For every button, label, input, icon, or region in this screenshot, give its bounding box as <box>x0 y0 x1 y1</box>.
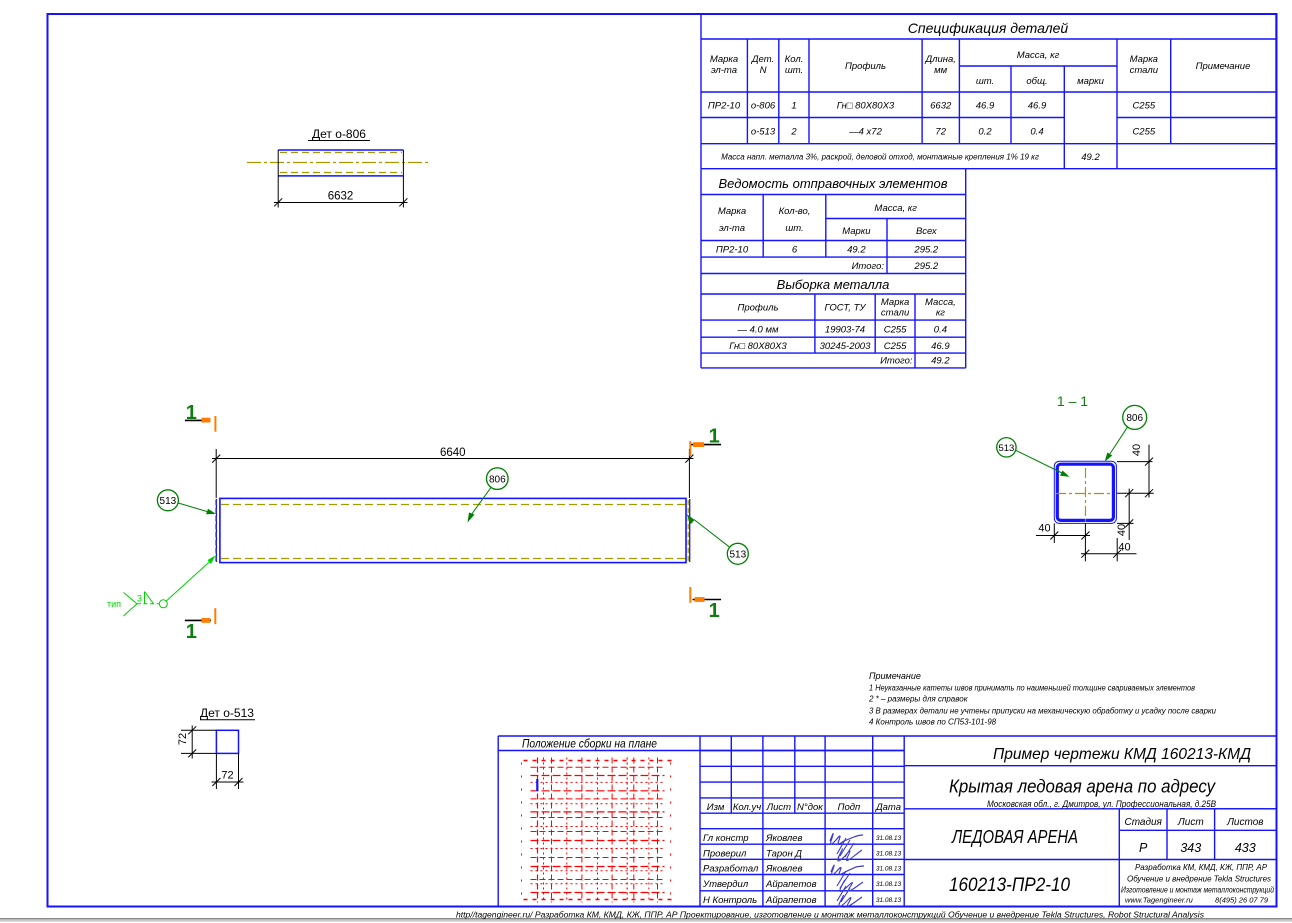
svg-text:72: 72 <box>935 127 946 138</box>
revision table grid <box>700 736 904 907</box>
svg-text:N: N <box>760 65 767 76</box>
svg-text:72: 72 <box>221 770 233 782</box>
section mark bottom-right <box>690 587 721 622</box>
svg-text:Гн□ 80Х80Х3: Гн□ 80Х80Х3 <box>837 101 895 112</box>
svg-text:Дет о-806: Дет о-806 <box>312 127 366 141</box>
svg-text:Примечание: Примечание <box>869 671 921 681</box>
svg-text:Пример чертежи КМД 160213-КМД: Пример чертежи КМД 160213-КМД <box>993 746 1251 763</box>
svg-text:Кол.уч: Кол.уч <box>733 802 761 813</box>
svg-text:кг: кг <box>936 308 945 319</box>
svg-text:Листов: Листов <box>1226 817 1263 828</box>
det806 hidden top <box>280 152 402 154</box>
band borders <box>498 736 1276 907</box>
svg-text:о-513: о-513 <box>751 127 776 138</box>
svg-text:513: 513 <box>729 550 746 561</box>
svg-text:6640: 6640 <box>440 447 466 459</box>
svg-text:46.9: 46.9 <box>931 341 950 352</box>
svg-text:40: 40 <box>1118 542 1130 554</box>
vyborka text <box>777 277 890 292</box>
svg-text:Лист: Лист <box>766 802 792 813</box>
det513 left dim 72 <box>181 726 216 759</box>
tube wall <box>1057 464 1113 520</box>
det806 hidden bottom <box>280 172 402 174</box>
svg-text:Крытая ледовая арена по адресу: Крытая ледовая арена по адресу <box>949 776 1217 797</box>
svg-text:Изготовление и монтаж металлок: Изготовление и монтаж металлоконструкций <box>1121 886 1274 895</box>
vedomost grid <box>701 169 966 274</box>
signature rows text <box>702 833 817 906</box>
svg-text:19903-74: 19903-74 <box>825 325 865 336</box>
svg-text:2: 2 <box>790 127 797 138</box>
dim 6640 <box>212 449 694 498</box>
svg-text:806: 806 <box>489 474 506 485</box>
svg-text:1 – 1: 1 – 1 <box>1057 393 1088 409</box>
det806 outline <box>278 149 403 151</box>
spec table <box>701 14 1276 169</box>
svg-text:шт.: шт. <box>976 76 994 87</box>
svg-text:Итого:: Итого: <box>852 261 885 272</box>
svg-text:С255: С255 <box>1132 127 1155 138</box>
weld symbol <box>107 556 216 617</box>
svg-text:8(495) 26 07 79: 8(495) 26 07 79 <box>1215 896 1269 905</box>
svg-text:513: 513 <box>160 496 177 507</box>
svg-text:Гл констр: Гл констр <box>703 833 749 844</box>
svg-text:Разработал: Разработал <box>703 864 759 875</box>
tube centerlines <box>1085 468 1087 523</box>
section dims <box>1036 445 1154 562</box>
svg-text:Подп: Подп <box>838 802 861 813</box>
svg-text:стали: стали <box>881 308 910 319</box>
svg-text:Яковлев: Яковлев <box>765 833 803 844</box>
svg-text:1: 1 <box>709 600 720 622</box>
svg-text:марки: марки <box>1077 76 1105 87</box>
svg-text:Марка: Марка <box>718 206 746 217</box>
vedomost text <box>719 176 948 191</box>
svg-text:Стадия: Стадия <box>1124 817 1162 828</box>
svg-text:40: 40 <box>1131 444 1143 456</box>
svg-text:46.9: 46.9 <box>976 101 995 112</box>
stage values <box>1139 841 1256 855</box>
bottom band <box>498 736 1276 907</box>
section mark bottom-left <box>185 608 215 643</box>
svg-text:Масса,: Масса, <box>925 297 956 308</box>
balloon 806 <box>468 468 509 523</box>
section balloon 806 <box>1105 405 1147 461</box>
tube outer contour <box>1054 461 1116 523</box>
svg-text:общ.: общ. <box>1026 76 1047 87</box>
svg-text:Положение сборки на плане: Положение сборки на плане <box>522 739 657 751</box>
section balloon 513 <box>997 438 1070 477</box>
svg-text:6632: 6632 <box>930 101 952 112</box>
det513 square <box>216 730 238 753</box>
svg-text:Дет.: Дет. <box>751 54 774 65</box>
dates column <box>876 835 902 904</box>
svg-text:6: 6 <box>792 245 798 256</box>
svg-text:3 В размерах детали не учтены: 3 В размерах детали не учтены припуски н… <box>869 707 1217 716</box>
svg-text:Профиль: Профиль <box>845 61 886 72</box>
red plan grid <box>522 758 672 903</box>
revision header text <box>707 802 901 813</box>
svg-text:стали: стали <box>1130 65 1159 76</box>
svg-text:шт.: шт. <box>785 65 803 76</box>
svg-text:С255: С255 <box>884 341 907 352</box>
detail 806 <box>247 127 431 208</box>
svg-text:31.08.13: 31.08.13 <box>876 897 902 904</box>
svg-text:Айрапетов: Айрапетов <box>765 895 817 906</box>
svg-text:160213-ПР2-10: 160213-ПР2-10 <box>949 875 1070 896</box>
det806 dim 6632 <box>274 202 408 204</box>
svg-text:40: 40 <box>1038 523 1050 535</box>
svg-text:Всех: Всех <box>916 226 938 237</box>
svg-text:31.08.13: 31.08.13 <box>876 835 902 842</box>
svg-text:о-806: о-806 <box>751 101 776 112</box>
svg-text:1: 1 <box>791 101 796 112</box>
svg-text:1: 1 <box>709 426 720 448</box>
svg-text:343: 343 <box>1180 841 1201 855</box>
svg-text:Марки: Марки <box>842 226 871 237</box>
svg-text:0.2: 0.2 <box>978 127 992 138</box>
beam outline <box>220 498 686 562</box>
svg-text:мм: мм <box>934 65 948 76</box>
svg-text:Длина,: Длина, <box>924 54 955 65</box>
svg-text:эл-та: эл-та <box>711 65 737 76</box>
svg-text:Кол.: Кол. <box>785 54 804 65</box>
svg-text:0.4: 0.4 <box>1030 127 1043 138</box>
svg-text:Примечание: Примечание <box>1196 61 1251 72</box>
svg-text:31.08.13: 31.08.13 <box>876 851 902 858</box>
svg-text:— 4.0 мм: — 4.0 мм <box>736 325 778 336</box>
svg-text:ПР2-10: ПР2-10 <box>708 101 741 112</box>
svg-text:Итого:: Итого: <box>880 356 913 367</box>
svg-text:ГОСТ, ТУ: ГОСТ, ТУ <box>825 303 867 314</box>
svg-text:2 * – размеры для справок: 2 * – размеры для справок <box>868 695 969 704</box>
beam hidden line top <box>221 504 685 506</box>
section mark top-right <box>690 426 721 457</box>
svg-text:40: 40 <box>1116 524 1128 536</box>
svg-text:www.Tagengineer.ru: www.Tagengineer.ru <box>1125 896 1194 905</box>
svg-text:295.2: 295.2 <box>913 261 938 272</box>
svg-text:30245-2003: 30245-2003 <box>820 341 871 352</box>
blue tick in plan <box>536 779 538 791</box>
svg-text:Московская обл., г. Дмитров, у: Московская обл., г. Дмитров, ул. Професс… <box>987 799 1217 810</box>
svg-text:0.4: 0.4 <box>934 325 947 336</box>
svg-text:Гн□ 80Х80Х3: Гн□ 80Х80Х3 <box>729 341 787 352</box>
left end plate <box>215 499 217 562</box>
svg-text:Яковлев: Яковлев <box>765 864 803 875</box>
bottom text <box>456 910 1205 920</box>
svg-text:433: 433 <box>1235 841 1256 855</box>
svg-text:Разработка КМ, КМД, КЖ, ППР, А: Разработка КМ, КМД, КЖ, ППР, АР <box>1135 863 1268 872</box>
svg-text:72: 72 <box>177 733 189 745</box>
main beam view <box>107 402 748 789</box>
svg-text:Изм: Изм <box>707 802 725 813</box>
svg-text:Дата: Дата <box>875 802 901 813</box>
svg-text:Кол-во,: Кол-во, <box>779 206 811 217</box>
svg-text:295.2: 295.2 <box>913 245 938 256</box>
stage headers <box>1124 817 1263 828</box>
main title block grid <box>904 766 1276 907</box>
gray window bar <box>0 918 1292 922</box>
svg-text:Н Контроль: Н Контроль <box>703 895 757 906</box>
svg-text:1: 1 <box>186 621 197 643</box>
vyborka table <box>701 274 966 368</box>
svg-text:Ведомость отправочных элементо: Ведомость отправочных элементов <box>719 176 948 191</box>
svg-text:тип: тип <box>107 599 121 609</box>
svg-text:—4 х72: —4 х72 <box>848 127 882 138</box>
svg-text:49.2: 49.2 <box>1081 152 1100 163</box>
svg-text:шт.: шт. <box>785 223 803 234</box>
svg-text:1 Неуказанные катеты швов при: 1 Неуказанные катеты швов принимать по н… <box>869 684 1195 693</box>
svg-text:Обучение и внедрение Tekla St: Обучение и внедрение Tekla Structures <box>1127 875 1271 884</box>
svg-text:513: 513 <box>998 443 1014 454</box>
svg-text:31.08.13: 31.08.13 <box>876 866 902 873</box>
svg-text:ПР2-10: ПР2-10 <box>716 245 749 256</box>
svg-text:ЛЕДОВАЯ АРЕНА: ЛЕДОВАЯ АРЕНА <box>951 826 1078 847</box>
svg-text:Айрапетов: Айрапетов <box>765 879 817 890</box>
svg-text:Тарон Д: Тарон Д <box>766 849 802 860</box>
balloon 513 right <box>687 514 749 565</box>
svg-text:Марка: Марка <box>1130 54 1158 65</box>
svg-text:Марка: Марка <box>881 297 909 308</box>
svg-text:49.2: 49.2 <box>931 356 950 367</box>
svg-text:6632: 6632 <box>328 190 354 202</box>
beam hidden line bottom <box>221 558 685 560</box>
vyborka grid <box>701 274 966 368</box>
svg-text:Масса, кг: Масса, кг <box>1017 50 1060 61</box>
svg-text:31.08.13: 31.08.13 <box>876 881 902 888</box>
notes <box>868 671 1217 727</box>
section mark top-left <box>185 402 216 432</box>
svg-text:3: 3 <box>137 594 142 604</box>
vedomost table <box>701 169 966 274</box>
svg-text:806: 806 <box>1126 413 1143 424</box>
svg-text:http//tagengineer.ru/ Разраб: http//tagengineer.ru/ Разработка КМ, КМД… <box>456 910 1205 920</box>
svg-text:1: 1 <box>186 402 197 424</box>
section 1-1 <box>997 393 1154 561</box>
company block <box>1121 863 1274 905</box>
svg-text:Масса, кг: Масса, кг <box>874 203 917 214</box>
spec table grid <box>701 14 1276 169</box>
svg-text:Марка: Марка <box>710 54 738 65</box>
svg-text:46.9: 46.9 <box>1028 101 1047 112</box>
svg-text:Масса напл. металла 3%, раскро: Масса напл. металла 3%, раскрой, деловой… <box>721 153 1039 162</box>
det513 bottom dim 72 <box>212 753 244 789</box>
det806 centerline <box>247 162 431 164</box>
svg-text:С255: С255 <box>1132 101 1155 112</box>
svg-text:Р: Р <box>1139 841 1148 855</box>
svg-text:Проверил: Проверил <box>703 849 747 860</box>
svg-text:Дет о-513: Дет о-513 <box>200 706 254 720</box>
svg-text:Утвердил: Утвердил <box>702 879 749 890</box>
svg-text:Профиль: Профиль <box>737 303 778 314</box>
svg-text:49.2: 49.2 <box>847 245 866 256</box>
svg-text:Спецификация деталей: Спецификация деталей <box>908 20 1069 36</box>
spec table text <box>908 20 1069 36</box>
svg-text:С255: С255 <box>884 325 907 336</box>
svg-text:Выборка металла: Выборка металла <box>777 277 890 292</box>
detail 513 drawing <box>177 706 255 789</box>
svg-text:Лист: Лист <box>1177 817 1204 828</box>
svg-text:эл-та: эл-та <box>719 223 745 234</box>
right end plate <box>689 499 691 562</box>
balloon 513 left <box>157 490 216 514</box>
svg-text:4 Контроль швов по СП53-101-9: 4 Контроль швов по СП53-101-98 <box>869 718 997 727</box>
signatures <box>830 834 864 907</box>
svg-text:N°док: N°док <box>797 802 823 813</box>
